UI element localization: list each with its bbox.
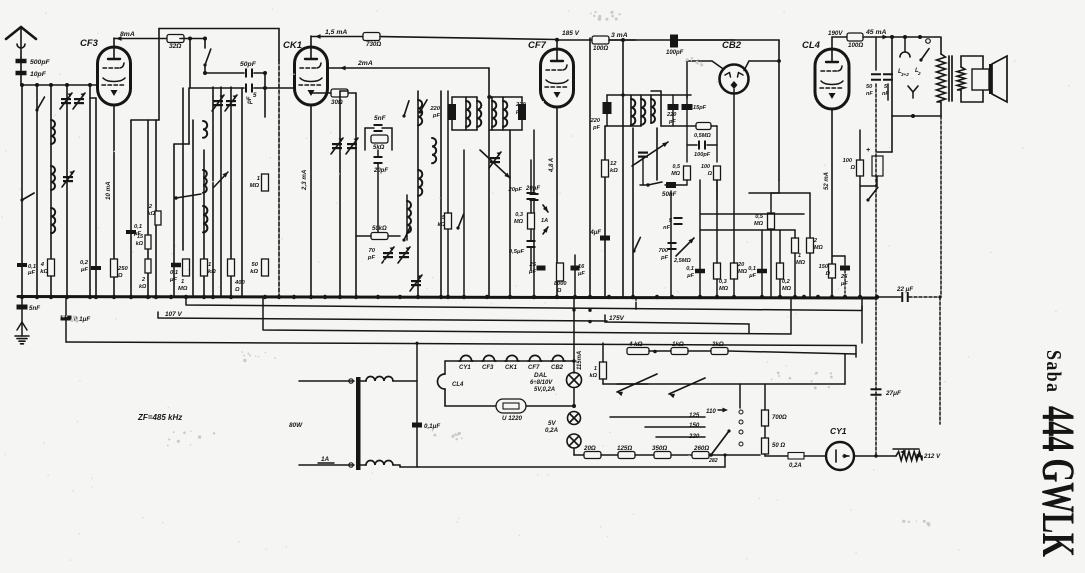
speaker cone <box>989 56 1007 102</box>
svg-text:45 mA: 45 mA <box>865 29 886 36</box>
svg-text:CF3: CF3 <box>80 38 99 49</box>
label 8mA <box>116 31 135 41</box>
wire v183 <box>182 88 184 250</box>
wire CY1 right <box>854 454 878 457</box>
wire v114 cathode <box>113 105 115 297</box>
resistor 0,5Mb <box>687 123 717 146</box>
svg-text:Ω: Ω <box>825 271 831 277</box>
wire IF2 tops <box>605 95 691 126</box>
svg-text:185 V: 185 V <box>562 30 580 37</box>
resistor r795 <box>792 230 806 297</box>
svg-text:MΩ: MΩ <box>671 171 680 177</box>
svg-text:70: 70 <box>369 248 376 254</box>
svg-text:52 mA: 52 mA <box>824 172 830 190</box>
wire v605 <box>604 126 606 297</box>
svg-text:+: + <box>866 147 870 154</box>
choke bottom <box>360 461 400 468</box>
wire v242 <box>241 88 243 297</box>
svg-text:20pF: 20pF <box>373 168 388 174</box>
svg-text:μF: μF <box>528 269 536 275</box>
resistor 20M <box>731 94 748 297</box>
svg-text:0,2A: 0,2A <box>545 427 559 434</box>
IF1 coil a <box>466 97 470 130</box>
wire h230 <box>700 214 804 230</box>
svg-text:0,1: 0,1 <box>134 224 142 230</box>
svg-text:260Ω: 260Ω <box>693 445 709 452</box>
svg-text:CF7: CF7 <box>528 40 547 51</box>
svg-text:CL4: CL4 <box>452 382 464 388</box>
wire rail CK1b <box>380 37 559 42</box>
capacitor 220pF a <box>429 97 456 130</box>
heater CK1 <box>505 355 519 371</box>
label 110 <box>706 408 728 415</box>
wire v417 <box>415 342 418 467</box>
IF2 coil c <box>651 95 655 123</box>
svg-text:115mA: 115mA <box>577 351 583 370</box>
wire top rail1 <box>114 38 167 40</box>
capacitor 20pF b <box>525 130 540 297</box>
capacitor 5nFb <box>663 200 682 243</box>
svg-text:MΩ: MΩ <box>514 219 524 225</box>
label 80W <box>289 422 303 429</box>
label 1A <box>318 456 334 463</box>
resistor 12k <box>602 160 619 177</box>
svg-text:CF3: CF3 <box>482 365 494 371</box>
wire v193 <box>192 120 194 297</box>
resistor 50kb <box>356 226 400 240</box>
label 52mA <box>824 172 830 190</box>
resistor 100a <box>592 36 636 52</box>
rail D <box>263 297 791 334</box>
rail F <box>400 453 727 467</box>
svg-text:Ω: Ω <box>117 273 123 279</box>
capacitor 0,1c <box>686 180 705 297</box>
capacitor 22uF <box>877 286 942 302</box>
svg-text:220: 220 <box>515 102 526 108</box>
trimmer T3 <box>62 171 74 187</box>
svg-text:Saba: Saba <box>1042 350 1064 392</box>
svg-text:kΩ: kΩ <box>250 269 258 275</box>
svg-text:50: 50 <box>866 84 873 90</box>
svg-text:kΩ: kΩ <box>610 168 618 174</box>
resistor 250ohm <box>111 259 129 279</box>
heater CF3 <box>482 355 496 371</box>
wire v940 <box>940 116 941 424</box>
wire v156 <box>156 29 159 298</box>
heater CL4 <box>438 374 464 389</box>
resistor 700 <box>762 384 788 438</box>
wire v51 <box>50 85 52 297</box>
svg-text:pF: pF <box>246 96 253 105</box>
wire v623 <box>621 40 625 297</box>
trimmer T8 <box>410 275 422 291</box>
resistor 5k <box>371 135 388 151</box>
heater CB2 <box>551 355 565 371</box>
coil L3a <box>418 91 422 297</box>
svg-text:100pF: 100pF <box>666 50 684 56</box>
rectifier CY1 <box>826 426 854 470</box>
wire h193 <box>749 192 810 194</box>
svg-text:1A: 1A <box>541 218 548 224</box>
resistor 100b <box>847 33 863 49</box>
svg-text:μF: μF <box>169 277 177 283</box>
svg-text:250: 250 <box>117 266 128 272</box>
capacitor 50pF <box>240 61 257 78</box>
svg-text:0,5μF: 0,5μF <box>509 249 525 255</box>
wire v148 <box>147 120 149 297</box>
wire v190 <box>189 39 191 89</box>
IF1 coil d <box>503 97 507 130</box>
wire spk bottom <box>892 114 941 118</box>
svg-text:3kΩ: 3kΩ <box>712 341 724 348</box>
label ZF <box>137 413 182 422</box>
label 1,5mA <box>315 29 347 39</box>
svg-text:5nF: 5nF <box>29 305 40 312</box>
heater line <box>445 359 576 363</box>
svg-text:MΩ: MΩ <box>796 260 806 266</box>
wire v633 <box>632 128 634 297</box>
svg-text:150: 150 <box>819 264 829 270</box>
svg-text:CK1: CK1 <box>283 40 302 51</box>
resistor 260ohm <box>692 445 718 464</box>
svg-text:125: 125 <box>689 412 700 419</box>
svg-text:CK1: CK1 <box>505 365 518 371</box>
svg-text:0,2: 0,2 <box>782 279 791 285</box>
wire v862 <box>861 306 863 343</box>
resistor 2M <box>807 193 824 297</box>
capacitor 50nF <box>662 182 687 297</box>
tube CF7 <box>528 40 574 107</box>
svg-text:0,3: 0,3 <box>515 212 524 218</box>
tube CK1 <box>283 40 328 105</box>
wire v356 <box>355 93 357 297</box>
resistor 32 ohm <box>167 35 184 51</box>
svg-text:4μF: 4μF <box>589 230 601 236</box>
resistor 150 <box>819 264 836 278</box>
svg-text:pF: pF <box>515 109 524 115</box>
wire CF7 cath <box>556 108 558 297</box>
svg-text:2,5MΩ: 2,5MΩ <box>673 258 691 264</box>
svg-text:16: 16 <box>578 264 585 270</box>
capacitor 50nFs <box>866 37 881 297</box>
capacitor 700pF <box>659 242 677 261</box>
switch S2 <box>35 97 44 112</box>
svg-text:3+2: 3+2 <box>901 72 909 77</box>
wire rail1b <box>180 37 207 41</box>
resistor 1k h <box>671 341 711 355</box>
svg-text:50nF: 50nF <box>662 191 677 198</box>
svg-text:μF: μF <box>577 271 585 277</box>
lamp DAL <box>530 372 582 393</box>
resistor 8000 <box>554 263 567 294</box>
heater CY1 <box>459 355 473 371</box>
svg-text:175V: 175V <box>609 315 625 322</box>
wire v265 <box>263 73 267 117</box>
switch S4 <box>402 100 427 118</box>
svg-text:15pF: 15pF <box>693 105 707 111</box>
label 185V <box>562 30 580 37</box>
heater bottom line <box>445 389 496 406</box>
svg-text:kΩ: kΩ <box>148 211 156 217</box>
wire CF7 top <box>557 40 592 49</box>
svg-text:pF: pF <box>592 125 600 131</box>
field coil L2 <box>915 39 930 76</box>
trimmer T7 <box>346 138 358 154</box>
label 190V <box>828 30 843 37</box>
label 115mA <box>577 351 583 370</box>
wire v131 <box>131 120 159 297</box>
svg-text:CF7: CF7 <box>528 365 540 371</box>
label 2,3mA <box>301 169 308 191</box>
wire CF3 plate to rail <box>113 38 115 47</box>
wire rail CK1 <box>311 36 363 38</box>
svg-text:MΩ: MΩ <box>719 286 729 292</box>
capacitor 5nF <box>374 115 387 132</box>
resistor 350ohm <box>652 445 671 459</box>
capacitor 5nFs <box>882 37 893 100</box>
svg-text:125Ω: 125Ω <box>617 445 632 452</box>
resistor 100c <box>843 130 864 297</box>
wire v66 gnd <box>65 297 67 342</box>
svg-text:20pF: 20pF <box>525 186 540 192</box>
resistor 0,5Md <box>671 164 690 185</box>
svg-text:MΩ: MΩ <box>178 286 188 292</box>
svg-text:1,5 mA: 1,5 mA <box>325 29 347 36</box>
svg-text:20Ω: 20Ω <box>583 445 596 452</box>
svg-text:2: 2 <box>917 71 921 76</box>
svg-text:50kΩ: 50kΩ <box>372 226 387 232</box>
label 45mA <box>863 29 892 39</box>
resistor 3k h <box>711 341 856 355</box>
capacitor 25uFb <box>832 256 850 297</box>
capacitor 0,5uF <box>509 229 536 270</box>
wire to fuse <box>765 455 788 457</box>
pot wiper2 <box>617 378 845 398</box>
wire v37 <box>36 85 38 297</box>
trimmer T6 <box>331 138 343 154</box>
resistor 4k h <box>603 341 671 355</box>
svg-text:220: 220 <box>429 106 440 112</box>
svg-text:110: 110 <box>706 408 716 415</box>
svg-text:pF: pF <box>367 255 376 261</box>
svg-text:μF: μF <box>80 267 88 273</box>
secondary zigzag <box>957 67 965 90</box>
svg-text:μF: μF <box>840 281 848 287</box>
svg-text:0,1: 0,1 <box>170 270 178 276</box>
svg-text:100Ω: 100Ω <box>848 42 863 49</box>
svg-text:μF: μF <box>27 270 35 276</box>
choke top <box>360 377 417 382</box>
wire v96 <box>90 98 96 297</box>
svg-text:4 kΩ: 4 kΩ <box>628 341 643 348</box>
trimmer T4 <box>212 95 224 111</box>
svg-text:80W: 80W <box>289 422 303 429</box>
svg-text:6÷8/10V: 6÷8/10V <box>530 380 553 386</box>
svg-text:8mA: 8mA <box>120 31 135 38</box>
label 175V <box>588 315 749 334</box>
scale lamp U1220 <box>496 399 526 422</box>
trimmer T2 <box>73 93 85 109</box>
svg-text:212 V: 212 V <box>923 453 941 460</box>
trimmer T9 <box>480 150 510 178</box>
resistor 0,3Mb <box>714 180 729 297</box>
switch S7b <box>632 237 640 252</box>
resistor 100d <box>701 145 721 200</box>
svg-text:350Ω: 350Ω <box>652 445 667 452</box>
capacitor 0,1d <box>748 230 767 297</box>
label 125 <box>689 412 700 419</box>
svg-text:190V: 190V <box>828 30 843 37</box>
svg-text:2mA: 2mA <box>357 60 373 67</box>
fork <box>908 86 918 98</box>
svg-text:0,3: 0,3 <box>719 279 728 285</box>
coil L1b <box>51 166 55 190</box>
svg-text:4,8 A: 4,8 A <box>549 158 555 173</box>
svg-text:22 μF: 22 μF <box>896 286 913 293</box>
lamp L2 <box>545 412 581 435</box>
capacitor 5nF g <box>17 297 41 336</box>
pot wiper <box>603 350 657 396</box>
coil L2c <box>203 206 207 232</box>
svg-text:1: 1 <box>257 176 260 182</box>
svg-text:1: 1 <box>181 279 184 285</box>
resistor 15k <box>136 234 151 249</box>
svg-text:pF: pF <box>660 255 668 261</box>
svg-text:5V,0,2A: 5V,0,2A <box>534 387 555 393</box>
resistor 730 <box>363 33 381 49</box>
capacitor 20pF <box>373 156 388 174</box>
svg-text:0,1μF: 0,1μF <box>424 423 440 430</box>
svg-text:282: 282 <box>708 458 718 464</box>
wire 50pF row <box>203 71 244 75</box>
capacitor 0,1 mains <box>412 423 440 431</box>
svg-text:2,3 mA: 2,3 mA <box>301 169 308 191</box>
tube CL4 <box>802 40 849 109</box>
field coil L3+2 <box>898 37 910 88</box>
svg-text:MΩ: MΩ <box>782 286 792 292</box>
resistor 0,3Mc <box>777 230 792 297</box>
svg-text:MΩ: MΩ <box>738 269 748 275</box>
svg-text:Ω: Ω <box>234 287 240 293</box>
svg-text:444 GWLK: 444 GWLK <box>1032 406 1084 557</box>
switch S6 <box>456 150 464 297</box>
IF2 coil b <box>641 95 645 126</box>
wire box top rail0 <box>159 29 279 61</box>
wire box 5k <box>365 128 392 150</box>
svg-text:CL4: CL4 <box>802 40 821 51</box>
svg-text:30Ω: 30Ω <box>331 99 343 106</box>
svg-text:730Ω: 730Ω <box>366 41 381 48</box>
svg-text:100: 100 <box>701 164 710 170</box>
capacitor 0,2uF <box>80 260 101 273</box>
trimmer arrowb <box>214 172 228 187</box>
switch S1 <box>203 39 210 74</box>
coil L1a <box>51 120 55 144</box>
coil L2a <box>203 121 207 138</box>
switch S7 <box>640 182 662 187</box>
capacitor 100pF top <box>666 35 735 57</box>
svg-text:ZF=485 kHz: ZF=485 kHz <box>137 413 182 422</box>
mains bottom <box>299 463 354 467</box>
wire rail right <box>890 35 940 39</box>
wire v22 <box>21 85 23 297</box>
svg-text:220: 220 <box>666 112 677 118</box>
capacitor 4uF <box>589 230 610 241</box>
svg-text:kΩ: kΩ <box>136 241 144 247</box>
trimmer T10 <box>632 142 668 185</box>
svg-text:CY1: CY1 <box>830 426 847 436</box>
svg-text:15: 15 <box>137 234 144 240</box>
svg-text:3 mA: 3 mA <box>611 32 628 39</box>
tube CF3 <box>80 38 131 105</box>
resistor 50kg <box>250 259 268 276</box>
wire 2mA <box>329 60 491 297</box>
title Saba <box>1042 350 1064 392</box>
svg-text:pF: pF <box>668 119 676 125</box>
svg-text:0,2: 0,2 <box>80 260 89 266</box>
resistor 125ohm <box>617 445 635 459</box>
heizwiderstand 212V <box>876 449 941 461</box>
wire v340 <box>340 91 348 297</box>
svg-text:kΩ: kΩ <box>208 269 216 275</box>
svg-text:MΩ: MΩ <box>754 221 764 227</box>
label 220 <box>688 433 700 440</box>
label 10mA <box>105 181 112 200</box>
wire spk left <box>891 37 893 116</box>
IF1 top a <box>452 97 477 130</box>
svg-text:100Ω: 100Ω <box>593 45 608 52</box>
svg-text:1: 1 <box>594 366 597 372</box>
svg-text:700: 700 <box>659 248 669 254</box>
capacitor can <box>866 116 892 186</box>
IF1 coil b <box>477 97 481 130</box>
svg-text:400: 400 <box>234 280 245 286</box>
resistor 20ohm <box>583 445 601 459</box>
resistor 1Mohm <box>250 174 269 191</box>
svg-text:μF: μF <box>686 273 694 279</box>
svg-text:MΩ: MΩ <box>814 245 823 251</box>
svg-text:DAL: DAL <box>534 372 547 379</box>
switch S5 <box>402 226 410 241</box>
svg-text:CY1: CY1 <box>459 365 471 371</box>
svg-text:8000: 8000 <box>554 281 567 287</box>
wire lamp v <box>573 297 575 406</box>
svg-text:220: 220 <box>590 118 601 124</box>
svg-text:50 Ω: 50 Ω <box>772 443 785 449</box>
resistor 2k <box>148 204 161 225</box>
detector D1 <box>543 205 548 234</box>
resistor 5kb <box>438 91 452 297</box>
svg-text:20pF: 20pF <box>507 187 522 193</box>
ground bus <box>18 295 879 299</box>
capacitor 20pF c <box>507 160 535 213</box>
svg-text:100pF: 100pF <box>694 152 711 158</box>
wire r4 <box>709 454 760 456</box>
wire v510 <box>509 130 511 297</box>
wire CB2 left in <box>687 61 724 98</box>
svg-text:5kΩ: 5kΩ <box>373 145 385 151</box>
svg-text:32Ω: 32Ω <box>169 43 181 50</box>
wire v845 <box>844 354 846 384</box>
svg-text:U 1220: U 1220 <box>502 415 523 422</box>
svg-text:0,1: 0,1 <box>748 266 756 272</box>
capacitor 0,1uF g <box>61 316 91 324</box>
wire v174 <box>174 88 189 297</box>
IF2 coil a <box>631 95 635 126</box>
label 4,8A <box>549 158 555 173</box>
trimmer T1 <box>60 93 72 109</box>
svg-text:5V: 5V <box>548 420 556 427</box>
